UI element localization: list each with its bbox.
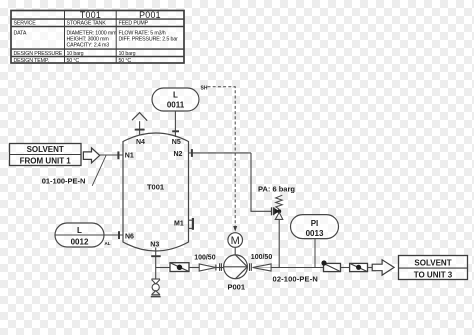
svg-text:DIAMETER: 1000 mm: DIAMETER: 1000 mm [67,30,118,36]
instrument L 0012 [55,223,104,247]
svg-text:SERVICE: SERVICE [14,21,37,27]
pump suction flange [220,263,222,271]
svg-text:100/50: 100/50 [251,254,273,261]
pump discharge flange [250,263,252,271]
equipment data table [11,11,184,64]
table body text [14,21,179,64]
svg-text:L: L [173,91,178,100]
inlet block arrow [83,148,99,163]
svg-text:0011: 0011 [167,101,185,110]
svg-text:SOLVENT: SOLVENT [27,145,64,154]
svg-text:02-100-PE-N: 02-100-PE-N [273,274,318,283]
svg-text:N1: N1 [125,152,134,159]
wire motor to pump [234,247,236,255]
nozzle N4 flange [135,129,145,131]
suction wire N3 tee to strainer [156,267,170,269]
drain valve with cap [151,279,161,297]
nozzle N5 line [174,111,176,137]
instrument PI 0013 [291,215,339,239]
svg-text:T001: T001 [80,10,101,20]
svg-text:T001: T001 [147,183,164,192]
nozzle N1 flange [117,151,119,159]
svg-text:FEED PUMP: FEED PUMP [119,21,149,27]
svg-text:10 barg: 10 barg [67,51,84,57]
nozzle N2 flange [191,149,193,157]
svg-text:0012: 0012 [71,238,89,247]
svg-text:HEIGHT: 3000 mm: HEIGHT: 3000 mm [67,36,110,42]
nozzle N3 line [155,248,157,268]
vessel T001 [123,133,189,251]
motor M circle [228,233,243,248]
wire N2 down to relief valve [251,153,271,211]
svg-text:PA: 6 barg: PA: 6 barg [258,184,295,193]
svg-text:SOLVENT: SOLVENT [414,258,451,267]
instrument L 0011 [152,88,199,111]
wire PI to discharge line [314,239,316,268]
svg-text:01-100-PE-N: 01-100-PE-N [42,176,86,185]
pump P001 [224,255,248,279]
svg-text:DESIGN PRESSURE: DESIGN PRESSURE [14,51,63,57]
relief valve spring [276,195,283,209]
svg-text:100/50: 100/50 [194,254,216,261]
svg-text:10 barg: 10 barg [119,51,136,57]
table header T001 [80,10,161,20]
discharge wire to solvent arrow [271,267,323,269]
svg-text:CAPACITY: 2.4 m3: CAPACITY: 2.4 m3 [67,43,110,49]
svg-text:L: L [77,226,82,235]
svg-text:DATA: DATA [14,30,27,36]
svg-text:PI: PI [311,219,319,228]
svg-text:M1: M1 [174,221,184,228]
signal wire SH to motor (dashed) [208,87,236,227]
signal arrowhead at motor [233,226,237,232]
wire V1 to V2 [341,267,350,269]
suction reducer 100/50 [199,264,216,271]
relief valve PSV [272,207,283,219]
vent chevron above N4 [132,113,147,121]
strainer S1 (box with diagonal and dot) [170,263,189,272]
nozzle N3 flange [151,255,161,257]
svg-text:DESIGN TEMP.: DESIGN TEMP. [14,58,49,64]
solvent to unit 3 box [399,256,468,280]
svg-text:DIFF. PRESSURE: 2.5 bar: DIFF. PRESSURE: 2.5 bar [119,36,179,42]
svg-text:N5: N5 [172,139,181,146]
nozzle N4 line [139,121,141,135]
nozzle N6 flange [118,231,120,239]
svg-text:AL: AL [105,241,111,246]
leader line 01-100-PE-N [92,155,106,185]
nozzle N5 flange [172,130,179,132]
svg-text:N3: N3 [150,241,159,248]
svg-text:N6: N6 [125,234,134,241]
svg-text:50 °C: 50 °C [67,58,80,64]
wire relief valve drop [278,220,280,268]
svg-text:P001: P001 [228,283,246,292]
svg-text:M: M [231,235,240,247]
wire V2 to outlet arrow [368,267,373,269]
nozzle N6 line [104,234,124,236]
svg-text:TO UNIT 3: TO UNIT 3 [414,270,453,279]
outlet block arrow [372,260,394,275]
wire strainer to suction reducer [189,267,199,269]
discharge reducer 100/50 [253,267,272,269]
svg-text:N2: N2 [174,151,183,158]
svg-text:N4: N4 [136,139,145,146]
solvent from unit 1 box [10,144,82,166]
valve V2 (box with diagonal, center dot) [350,263,368,271]
svg-text:STORAGE TANK: STORAGE TANK [67,21,107,27]
svg-text:50 °C: 50 °C [119,58,132,64]
nozzle N2 line [188,152,251,154]
manway M1 cover bar [192,218,194,230]
svg-text:FLOW RATE: 5 m3/h: FLOW RATE: 5 m3/h [119,30,166,36]
drain wire below N3 [155,268,157,280]
svg-text:0013: 0013 [306,229,324,238]
svg-text:P001: P001 [139,10,161,20]
manway M1 stubs [189,220,193,228]
svg-text:FROM UNIT 1: FROM UNIT 1 [20,156,72,165]
svg-text:SH: SH [201,86,208,92]
valve V1 (box with diagonal, corner dot) [321,260,340,271]
wire reducer to pump flange [216,267,224,269]
nozzle N1 line [100,154,124,156]
